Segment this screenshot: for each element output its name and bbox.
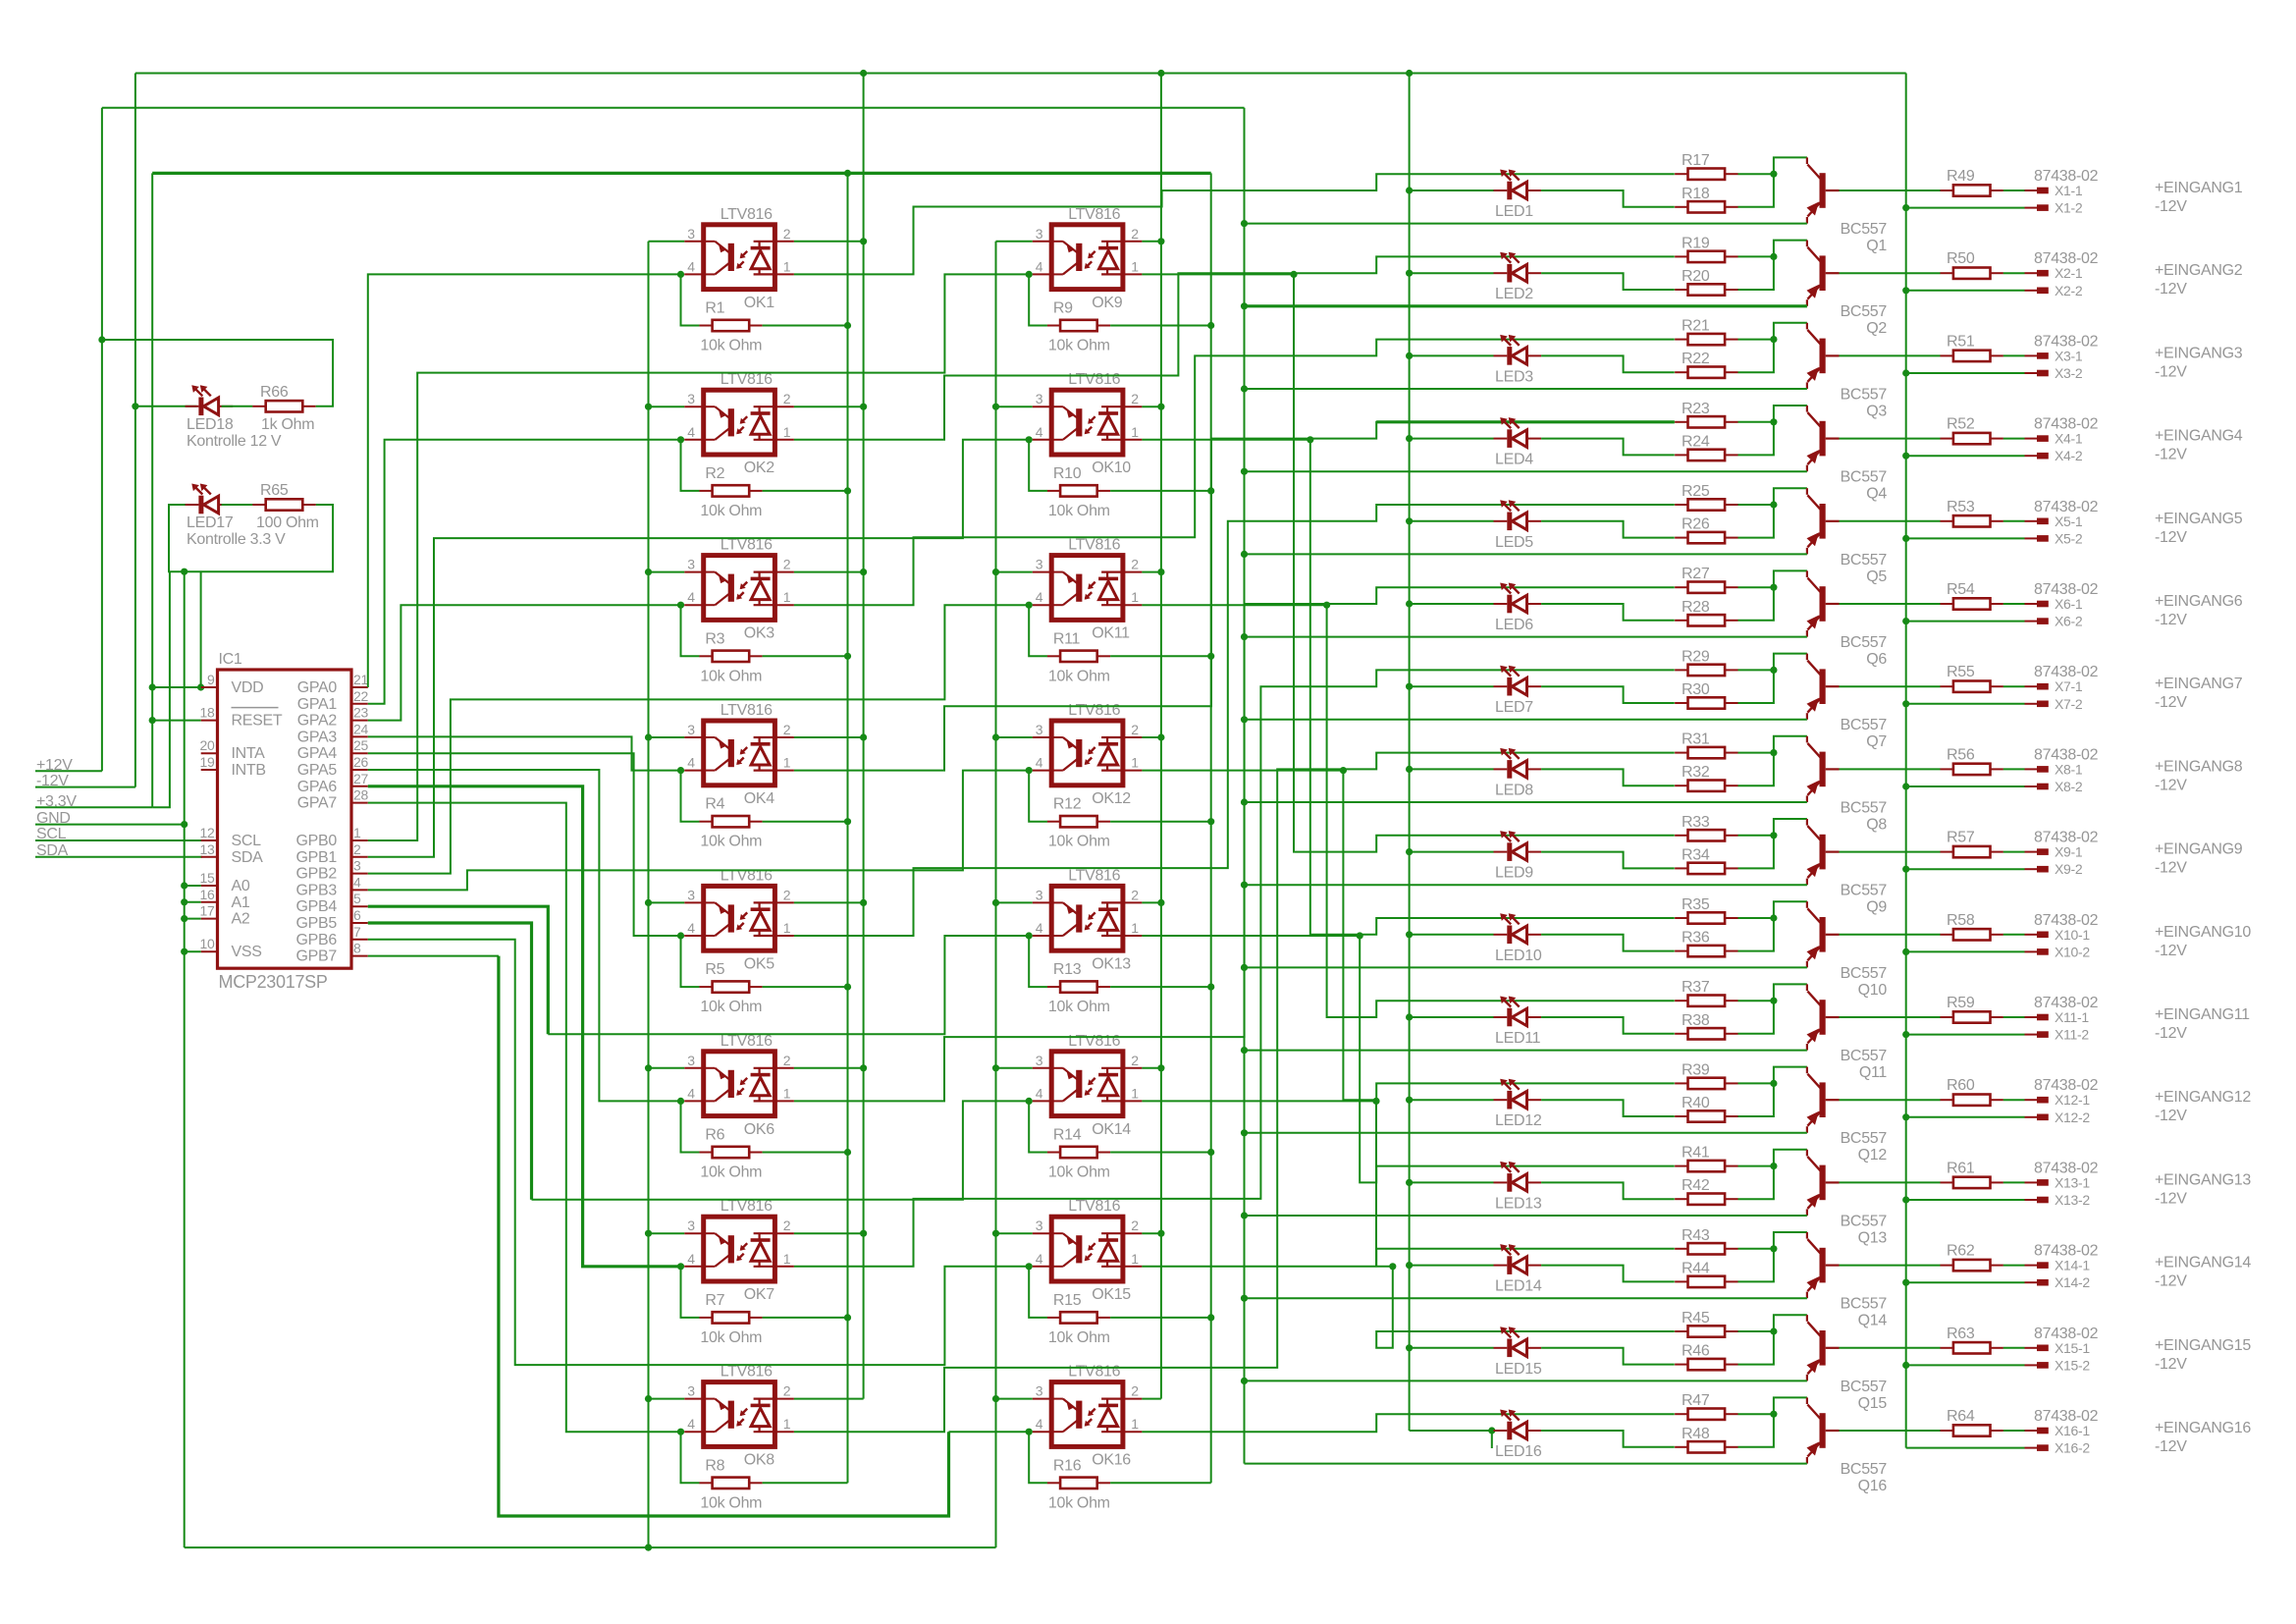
label R11 <box>1053 630 1081 647</box>
label LTV816 OK9 <box>1068 206 1120 223</box>
svg-text:87438-02: 87438-02 <box>2034 746 2099 763</box>
transistor Q6 BC557 <box>1807 570 1840 636</box>
IC U1 MCP23017SP box <box>218 670 352 968</box>
wire R56 to X8-1 <box>2003 768 2025 770</box>
label OK4 <box>744 790 775 807</box>
svg-text:R40: R40 <box>1682 1095 1710 1111</box>
label LTV816 OK10 <box>1068 371 1120 388</box>
svg-text:LED3: LED3 <box>1495 368 1533 385</box>
wire R21 out <box>1738 339 1774 341</box>
pin 2 OK2 <box>783 391 791 406</box>
svg-text:GPB4: GPB4 <box>296 898 338 915</box>
resistor R47 <box>1675 1409 1737 1420</box>
value 10k Ohm R12 <box>1048 834 1110 850</box>
svg-text:LED18: LED18 <box>187 416 234 433</box>
wire GPA0 to OK1 pin4 <box>368 274 681 687</box>
svg-text:R60: R60 <box>1947 1077 1975 1094</box>
svg-text:R31: R31 <box>1682 731 1710 748</box>
label R66 <box>260 384 289 401</box>
resistor R37 <box>1675 996 1737 1006</box>
junction OK5 pin4 <box>677 932 684 939</box>
value 1k Ohm <box>261 416 314 433</box>
pin A2 (17) <box>200 903 250 928</box>
label X16-1 <box>2055 1423 2090 1438</box>
label Q11 <box>1859 1064 1888 1081</box>
connector X12-2 <box>2025 1114 2049 1121</box>
wire LED11 to R38 <box>1541 1017 1675 1034</box>
wire OK2 pin4 to R2 <box>681 440 700 491</box>
svg-text:Q11: Q11 <box>1859 1064 1888 1081</box>
label BC557 Q9 <box>1841 883 1888 899</box>
wire -12V to X11-2 <box>1902 1031 2024 1038</box>
label R38 <box>1682 1012 1710 1029</box>
junction GND label <box>181 821 187 828</box>
wire -12V X-2 bus <box>1905 74 1907 1448</box>
svg-text:R58: R58 <box>1947 912 1975 929</box>
junction OK12 pin4 <box>1026 767 1033 774</box>
label Kontrolle 3.3 V <box>187 531 286 548</box>
svg-text:OK6: OK6 <box>744 1121 775 1138</box>
svg-text:LTV816: LTV816 <box>1068 1033 1120 1050</box>
wire LED12 to R40 <box>1541 1100 1675 1116</box>
label BC557 Q2 <box>1841 303 1888 320</box>
label LED6 <box>1495 617 1533 633</box>
wire Q3 base to R51 <box>1840 354 1941 356</box>
label 87438-02 X11 <box>2034 995 2099 1011</box>
wire OK7 pin1 to R29 feed <box>794 670 1675 1266</box>
svg-text:X10-2: X10-2 <box>2055 944 2090 959</box>
wire -12V to X10-2 <box>1902 948 2024 955</box>
resistor R50 <box>1941 268 2003 279</box>
resistor R29 <box>1675 665 1737 676</box>
node -12V X12 <box>2155 1108 2187 1124</box>
label R33 <box>1682 814 1710 831</box>
connector X3-1 <box>2025 352 2049 359</box>
label X6-1 <box>2055 596 2083 612</box>
wire +3.3V riser to LED17 loop <box>152 571 170 807</box>
svg-text:RESET: RESET <box>232 713 283 730</box>
svg-text:BC557: BC557 <box>1841 303 1888 320</box>
wire Q5 emitter <box>1245 553 1807 555</box>
label Q6 <box>1866 651 1887 668</box>
svg-text:1: 1 <box>783 258 791 274</box>
wire -12V to X16-2 <box>1906 1447 2025 1449</box>
svg-text:OK14: OK14 <box>1092 1121 1131 1138</box>
connector X8-2 <box>2025 784 2049 790</box>
svg-text:10k Ohm: 10k Ohm <box>1048 999 1110 1015</box>
value 10k Ohm R14 <box>1048 1164 1110 1181</box>
svg-text:4: 4 <box>1036 258 1043 274</box>
label X13-2 <box>2055 1192 2090 1208</box>
label BC557 Q5 <box>1841 552 1888 568</box>
svg-text:Q14: Q14 <box>1858 1313 1888 1329</box>
svg-text:-12V: -12V <box>2155 1025 2187 1042</box>
label R29 <box>1682 648 1710 665</box>
label X3-1 <box>2055 348 2083 363</box>
wire R28 out <box>1738 570 1807 620</box>
node -12V X15 <box>2155 1356 2187 1373</box>
transistor Q10 BC557 <box>1807 901 1840 967</box>
junction OK16 pin4 <box>1026 1429 1033 1435</box>
resistor R32 <box>1675 781 1737 791</box>
junction +3.3V / R1-R8 pullup bus <box>844 170 851 177</box>
wire R50 to X2-1 <box>2003 272 2025 274</box>
svg-text:+EINGANG7: +EINGANG7 <box>2155 676 2243 692</box>
svg-text:5: 5 <box>353 891 361 906</box>
svg-text:3: 3 <box>1036 226 1043 242</box>
label X12-1 <box>2055 1092 2090 1108</box>
label BC557 Q8 <box>1841 799 1888 816</box>
svg-text:13: 13 <box>200 841 215 857</box>
svg-text:+EINGANG9: +EINGANG9 <box>2155 841 2243 858</box>
pin GPB2 (3) <box>296 858 368 883</box>
label X15-2 <box>2055 1357 2090 1373</box>
svg-text:Q16: Q16 <box>1858 1478 1888 1494</box>
LED LED18 <box>186 385 234 415</box>
wire LED15 to R46 <box>1541 1348 1675 1365</box>
connector X13-2 <box>2025 1197 2049 1204</box>
label X6-2 <box>2055 614 2083 629</box>
svg-text:2: 2 <box>1131 722 1139 737</box>
value 10k Ohm R8 <box>700 1494 762 1511</box>
node +EINGANG10 <box>2155 924 2251 941</box>
label R12 <box>1053 796 1082 813</box>
svg-text:87438-02: 87438-02 <box>2034 830 2099 846</box>
svg-text:R49: R49 <box>1947 168 1975 185</box>
wire R33 out <box>1738 835 1774 837</box>
pin 1 OK7 <box>783 1251 791 1267</box>
svg-text:SDA: SDA <box>232 849 264 866</box>
node -12V X2 <box>2155 281 2187 298</box>
svg-text:R36: R36 <box>1682 930 1710 947</box>
label OK1 <box>744 295 775 311</box>
svg-text:GPA2: GPA2 <box>297 713 338 730</box>
wire R53 to X5-1 <box>2003 520 2025 522</box>
optocoupler OK7 LTV816 <box>684 1217 794 1281</box>
pin 2 OK15 <box>1131 1218 1139 1233</box>
wire Q12 emitter <box>1245 1132 1807 1134</box>
svg-text:R55: R55 <box>1947 664 1975 680</box>
wire OK3 pin1 to R21 feed <box>794 340 1675 606</box>
wire OK14 pin4 to R14 <box>1029 1101 1047 1152</box>
wire -12V to X4-2 <box>1902 453 2024 460</box>
svg-text:BC557: BC557 <box>1841 883 1888 899</box>
svg-text:R64: R64 <box>1947 1408 1975 1425</box>
connector X11-1 <box>2025 1014 2049 1021</box>
resistor R51 <box>1941 351 2003 361</box>
value 10k Ohm R4 <box>700 834 762 850</box>
wire OK12 pin1 to R39 feed <box>1142 771 1674 1101</box>
value 100 Ohm <box>256 514 319 531</box>
svg-text:10k Ohm: 10k Ohm <box>1048 338 1110 354</box>
node -12V X13 <box>2155 1190 2187 1207</box>
svg-text:22: 22 <box>353 688 368 704</box>
label R48 <box>1682 1426 1710 1442</box>
svg-text:18: 18 <box>200 705 215 721</box>
value 10k Ohm R9 <box>1048 338 1110 354</box>
label R7 <box>705 1292 724 1309</box>
svg-text:BC557: BC557 <box>1841 386 1888 403</box>
resistor R57 <box>1941 846 2003 857</box>
LED LED14 <box>1494 1244 1542 1274</box>
wire R49 to X1-1 <box>2003 189 2025 191</box>
svg-text:R51: R51 <box>1947 333 1975 350</box>
wire LED9 to R34 <box>1541 852 1675 869</box>
wire GPB1 to OK10 pin4 <box>368 440 1029 857</box>
label R43 <box>1682 1227 1710 1244</box>
wire Q13 emitter <box>1245 1215 1807 1217</box>
wire Q14 emitter <box>1245 1297 1807 1299</box>
label R42 <box>1682 1177 1710 1194</box>
junction R pair ch9 <box>1770 832 1777 839</box>
svg-text:3: 3 <box>1036 1053 1043 1068</box>
svg-text:2: 2 <box>1131 1053 1139 1068</box>
label Q12 <box>1858 1147 1888 1164</box>
connector X13-1 <box>2025 1179 2049 1186</box>
pin 3 OK9 <box>1036 226 1043 242</box>
label LED14 <box>1495 1278 1542 1295</box>
svg-text:3: 3 <box>687 226 695 242</box>
wire OK11 pin4 to R11 <box>1029 605 1047 656</box>
svg-text:-12V: -12V <box>2155 198 2187 215</box>
wire R36 out <box>1738 901 1807 950</box>
svg-text:R47: R47 <box>1682 1392 1710 1409</box>
label LTV816 OK5 <box>721 867 773 884</box>
label X16-2 <box>2055 1440 2090 1456</box>
label R36 <box>1682 930 1710 947</box>
svg-text:R21: R21 <box>1682 318 1710 335</box>
pin 4 OK2 <box>687 424 695 440</box>
label BC557 Q11 <box>1841 1048 1888 1064</box>
label 87438-02 X10 <box>2034 912 2099 929</box>
wire RESET net <box>152 720 201 722</box>
svg-text:X6-1: X6-1 <box>2055 596 2083 612</box>
junction R pair ch15 <box>1770 1327 1777 1334</box>
resistor R24 <box>1675 450 1737 460</box>
svg-text:GPB0: GPB0 <box>296 833 338 849</box>
resistor R53 <box>1941 515 2003 526</box>
label BC557 Q16 <box>1841 1461 1888 1478</box>
transistor Q14 BC557 <box>1807 1232 1840 1298</box>
svg-text:LTV816: LTV816 <box>721 702 773 719</box>
label LTV816 OK15 <box>1068 1198 1120 1215</box>
wire R25 out <box>1738 504 1774 506</box>
svg-text:BC557: BC557 <box>1841 965 1888 982</box>
transistor Q3 BC557 <box>1807 323 1840 389</box>
resistor R13 <box>1047 981 1110 992</box>
resistor R54 <box>1941 598 2003 609</box>
resistor R22 <box>1675 367 1737 378</box>
wire GPB0 to OK9 pin4 <box>368 274 1029 840</box>
svg-text:OK16: OK16 <box>1092 1452 1131 1469</box>
svg-text:-12V: -12V <box>2155 1356 2187 1373</box>
svg-text:R33: R33 <box>1682 814 1710 831</box>
svg-text:2: 2 <box>1131 1218 1139 1233</box>
resistor R19 <box>1675 251 1737 262</box>
svg-text:LTV816: LTV816 <box>721 1033 773 1050</box>
wire R66 to +12V <box>102 340 333 406</box>
pin GPA0 (21) <box>297 672 369 696</box>
svg-text:LED13: LED13 <box>1495 1195 1542 1212</box>
svg-text:-12V: -12V <box>2155 447 2187 463</box>
label LTV816 OK3 <box>721 537 773 554</box>
wire -12V bus OK9-OK16 pin2 <box>1142 74 1164 1399</box>
label LED16 <box>1495 1443 1542 1460</box>
label R60 <box>1947 1077 1975 1094</box>
svg-text:87438-02: 87438-02 <box>2034 1160 2099 1176</box>
resistor R8 <box>699 1478 762 1489</box>
label OK5 <box>744 955 775 972</box>
junction +3.3V / RESET <box>149 717 156 724</box>
wire GPB2 to OK11 pin4 <box>368 605 1029 873</box>
label X3-2 <box>2055 365 2083 381</box>
svg-text:3: 3 <box>687 722 695 737</box>
wire GPA1 to OK2 pin4 <box>368 440 681 704</box>
wire Q15 emitter <box>1245 1380 1807 1381</box>
label R51 <box>1947 333 1975 350</box>
junction OK14 pin4 <box>1026 1098 1033 1105</box>
svg-text:Kontrolle 12 V: Kontrolle 12 V <box>187 433 282 450</box>
label R24 <box>1682 433 1710 450</box>
pin 3 OK16 <box>1036 1383 1043 1399</box>
svg-text:R22: R22 <box>1682 351 1710 367</box>
label OK6 <box>744 1121 775 1138</box>
label 87438-02 X13 <box>2034 1160 2099 1176</box>
optocoupler OK2 LTV816 <box>684 390 794 455</box>
label OK11 <box>1092 625 1130 642</box>
label LED8 <box>1495 782 1533 798</box>
svg-text:OK9: OK9 <box>1092 295 1123 311</box>
pin 4 OK7 <box>687 1251 695 1267</box>
pin 2 OK8 <box>783 1383 791 1399</box>
node -12V X7 <box>2155 694 2187 711</box>
svg-text:BC557: BC557 <box>1841 717 1888 733</box>
svg-text:Q7: Q7 <box>1866 733 1887 750</box>
label LTV816 OK7 <box>721 1198 773 1215</box>
resistor R55 <box>1941 681 2003 692</box>
svg-text:20: 20 <box>200 737 215 753</box>
svg-text:R38: R38 <box>1682 1012 1710 1029</box>
svg-text:26: 26 <box>353 754 368 770</box>
resistor R25 <box>1675 499 1737 510</box>
svg-text:17: 17 <box>200 903 215 919</box>
label X14-2 <box>2055 1274 2090 1290</box>
svg-text:R32: R32 <box>1682 764 1710 781</box>
svg-text:OK13: OK13 <box>1092 955 1131 972</box>
pin 1 OK6 <box>783 1085 791 1101</box>
pin 3 OK13 <box>1036 887 1043 902</box>
svg-text:SCL: SCL <box>232 833 262 849</box>
wire R37 out <box>1738 1000 1774 1001</box>
wire R22 out <box>1738 323 1807 372</box>
wire -12V to X7-2 <box>1902 700 2024 707</box>
wire Q3 emitter <box>1245 388 1807 390</box>
svg-text:2: 2 <box>783 1218 791 1233</box>
svg-text:4: 4 <box>1036 589 1043 605</box>
svg-text:Q1: Q1 <box>1866 238 1887 254</box>
pin GPB7 (8) <box>296 941 368 965</box>
svg-text:BC557: BC557 <box>1841 1130 1888 1147</box>
transistor Q7 BC557 <box>1807 654 1840 720</box>
svg-text:R50: R50 <box>1947 250 1975 267</box>
label 87438-02 X9 <box>2034 830 2099 846</box>
svg-text:LTV816: LTV816 <box>721 1198 773 1215</box>
connector X1-1 <box>2025 188 2049 194</box>
wire R24 out <box>1738 406 1807 455</box>
svg-text:25: 25 <box>353 737 368 753</box>
svg-text:-12V: -12V <box>2155 1273 2187 1290</box>
label R10 <box>1053 465 1082 482</box>
label R4 <box>705 796 724 813</box>
wire R26 out <box>1738 488 1807 537</box>
label R16 <box>1053 1457 1082 1474</box>
svg-text:R4: R4 <box>705 796 724 813</box>
LED LED12 <box>1494 1079 1542 1110</box>
label LED10 <box>1495 947 1542 964</box>
svg-text:BC557: BC557 <box>1841 469 1888 486</box>
svg-text:87438-02: 87438-02 <box>2034 912 2099 929</box>
junction R pair ch14 <box>1770 1245 1777 1252</box>
junction R pair ch8 <box>1770 749 1777 756</box>
wire LED17 to R65 <box>222 504 253 506</box>
value 10k Ohm R16 <box>1048 1494 1110 1511</box>
wire OK12 pin4 to R12 <box>1029 771 1047 822</box>
svg-text:INTB: INTB <box>232 762 266 779</box>
wire OK4 pin1 to R23 feed <box>794 422 1675 771</box>
wire GPB3 to OK12 pin4 <box>368 771 1029 891</box>
svg-text:4: 4 <box>687 1251 695 1267</box>
svg-text:R54: R54 <box>1947 581 1975 598</box>
optocoupler OK14 LTV816 <box>1033 1052 1143 1116</box>
svg-text:3: 3 <box>687 1218 695 1233</box>
wire -12V bus to LED8 <box>1410 768 1494 770</box>
svg-text:X9-2: X9-2 <box>2055 861 2083 877</box>
svg-text:4: 4 <box>687 589 695 605</box>
wire Q10 emitter <box>1245 966 1807 968</box>
svg-text:GPA0: GPA0 <box>297 679 338 696</box>
pin INTA (20) <box>200 737 266 762</box>
junction R pair ch10 <box>1770 914 1777 921</box>
svg-text:X12-1: X12-1 <box>2055 1092 2090 1108</box>
svg-text:LED15: LED15 <box>1495 1361 1542 1378</box>
label X8-1 <box>2055 761 2083 777</box>
wire Q8 emitter <box>1245 801 1807 803</box>
svg-text:-12V: -12V <box>2155 1438 2187 1455</box>
svg-text:LTV816: LTV816 <box>1068 537 1120 554</box>
svg-text:Kontrolle 3.3 V: Kontrolle 3.3 V <box>187 531 286 548</box>
svg-text:Q8: Q8 <box>1866 816 1887 833</box>
resistor R39 <box>1675 1078 1737 1089</box>
svg-text:X15-1: X15-1 <box>2055 1340 2090 1356</box>
node +3.3V <box>35 793 152 810</box>
wire R59 to X11-1 <box>2003 1016 2025 1018</box>
wire -12V bus to LED10 <box>1410 934 1494 936</box>
svg-text:3: 3 <box>1036 557 1043 572</box>
wire OK2 pin1 to R19 feed <box>794 256 1675 439</box>
wire -12V bus to LED15 <box>1410 1347 1494 1349</box>
resistor R46 <box>1675 1359 1737 1370</box>
svg-text:LTV816: LTV816 <box>1068 371 1120 388</box>
junction R pair ch12 <box>1770 1080 1777 1087</box>
svg-text:R27: R27 <box>1682 566 1710 582</box>
pin 1 OK16 <box>1131 1416 1139 1432</box>
svg-text:BC557: BC557 <box>1841 221 1888 238</box>
wire OK8 pin4 to R8 <box>681 1432 700 1483</box>
wire R54 to X6-1 <box>2003 603 2025 605</box>
junction OK6 pin4 <box>677 1098 684 1105</box>
LED LED11 <box>1494 997 1542 1027</box>
label X2-2 <box>2055 283 2083 298</box>
